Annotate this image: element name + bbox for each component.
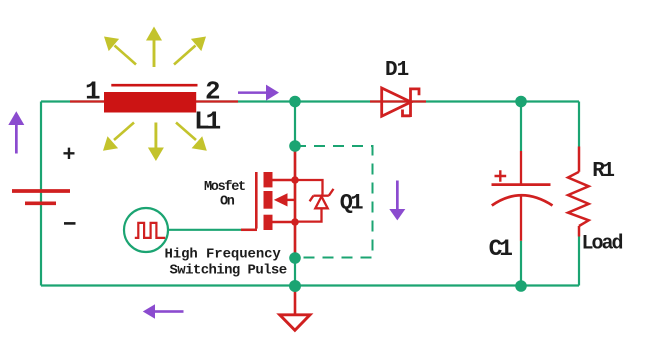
svg-text:Mosfet: Mosfet bbox=[204, 180, 245, 195]
svg-text:2: 2 bbox=[205, 77, 221, 107]
svg-text:1: 1 bbox=[85, 77, 101, 107]
svg-text:L1: L1 bbox=[194, 107, 221, 137]
svg-text:Load: Load bbox=[582, 233, 623, 256]
svg-text:Switching Pulse: Switching Pulse bbox=[170, 263, 287, 279]
svg-text:On: On bbox=[220, 194, 235, 209]
svg-text:High Frequency: High Frequency bbox=[165, 247, 282, 263]
svg-text:+: + bbox=[62, 143, 75, 168]
svg-text:Q1: Q1 bbox=[340, 191, 364, 216]
svg-text:C1: C1 bbox=[489, 236, 513, 262]
svg-text:D1: D1 bbox=[385, 59, 409, 82]
svg-text:R1: R1 bbox=[592, 160, 614, 183]
